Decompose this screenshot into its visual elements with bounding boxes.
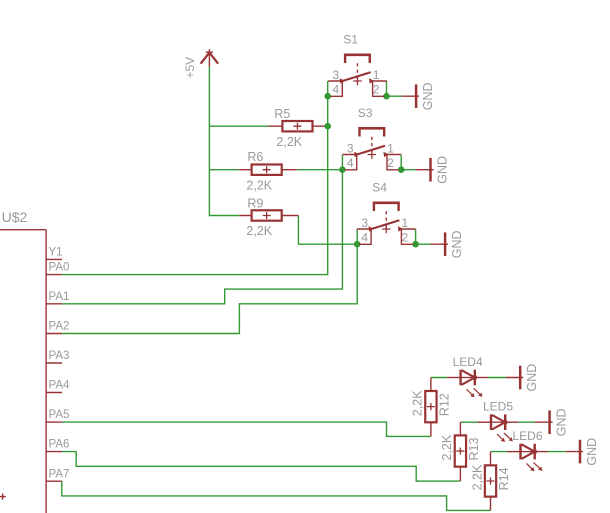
svg-text:+5V: +5V [183,57,197,79]
svg-text:S4: S4 [372,181,387,195]
svg-text:2,2K: 2,2K [411,390,425,416]
svg-text:Y1: Y1 [49,247,63,259]
svg-text:R9: R9 [247,197,263,211]
svg-text:2,2K: 2,2K [440,434,454,460]
svg-text:U$2: U$2 [2,209,28,225]
svg-text:2,2K: 2,2K [470,464,484,490]
svg-text:LED6: LED6 [513,429,543,443]
svg-text:2,2K: 2,2K [246,179,272,193]
svg-text:PA5: PA5 [49,409,70,421]
svg-text:S1: S1 [343,33,358,47]
svg-text:PA7: PA7 [49,468,70,480]
svg-text:PA1: PA1 [49,291,70,303]
svg-text:PA3: PA3 [49,350,70,362]
svg-text:LED4: LED4 [453,355,483,369]
svg-text:2,2K: 2,2K [276,135,302,149]
svg-text:R13: R13 [467,438,481,461]
svg-text:R14: R14 [497,467,511,490]
svg-text:2,2K: 2,2K [246,224,272,238]
svg-text:R12: R12 [437,393,451,416]
svg-text:R5: R5 [274,107,290,121]
svg-text:PA4: PA4 [49,380,70,392]
svg-text:S3: S3 [358,106,373,120]
svg-text:LED5: LED5 [483,400,513,414]
svg-text:PA6: PA6 [49,439,70,451]
svg-text:PA2: PA2 [49,321,70,333]
svg-text:R6: R6 [247,150,263,164]
svg-text:PA0: PA0 [49,262,70,274]
